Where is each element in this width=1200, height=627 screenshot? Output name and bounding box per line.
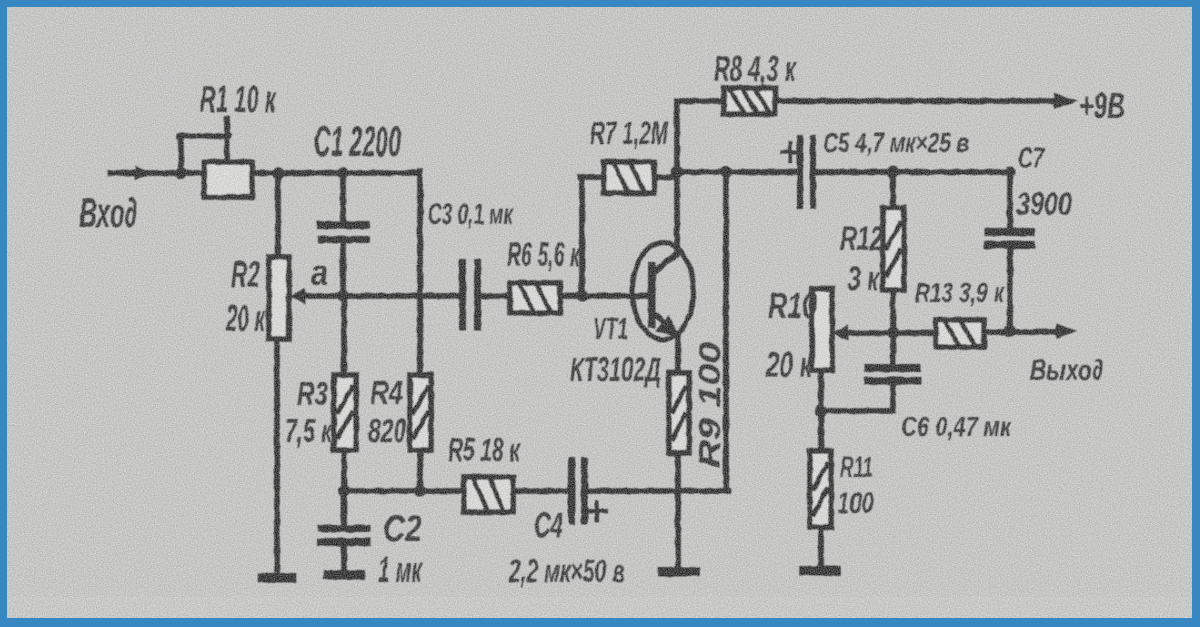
junction a-C1 xyxy=(337,290,349,302)
resistor R11 100 xyxy=(810,451,831,527)
wire R9 bottom lead xyxy=(675,453,681,567)
label Vyhod xyxy=(1030,354,1103,387)
ground R2 xyxy=(263,573,291,583)
wire C4 to feedback corner xyxy=(588,488,728,494)
junction R3-bottom xyxy=(338,485,350,497)
wire R5 to C4 xyxy=(513,488,570,494)
wire C5 to C7 corner xyxy=(816,169,1012,175)
wire R3 bottom lead xyxy=(341,450,347,491)
label C2 value xyxy=(378,549,423,590)
resistor R9 100 xyxy=(669,373,689,453)
wire main collector to C5 xyxy=(677,169,797,175)
junction R10-R11 xyxy=(815,405,827,417)
wire R2 top lead xyxy=(275,173,281,257)
wire R12 top lead xyxy=(890,172,896,208)
resistor R3 7.5k xyxy=(334,375,356,450)
wire C6 top lead xyxy=(890,333,896,368)
label R6 value xyxy=(507,236,581,274)
resistor R10 (potentiometer 20k) xyxy=(812,289,832,370)
ground R9 xyxy=(663,567,695,577)
junction C1 branch xyxy=(337,167,349,179)
label R11 value xyxy=(837,487,874,520)
label R12 xyxy=(840,220,883,258)
wire R6 to base xyxy=(560,293,651,299)
wire R3 top lead xyxy=(341,296,347,375)
label R4 xyxy=(370,374,403,411)
wire feedback vertical xyxy=(723,172,729,491)
label R12 value xyxy=(848,260,880,298)
resistor R5 18k xyxy=(464,477,513,512)
label C3 value xyxy=(428,198,514,231)
label R13 value xyxy=(915,277,1005,308)
capacitor C1 2200 xyxy=(321,225,366,240)
C4 plus sign xyxy=(588,502,606,520)
label R2 value xyxy=(225,298,266,339)
wire corner down to R4 xyxy=(417,171,423,375)
wire supply rail xyxy=(677,98,1056,104)
label +9V xyxy=(1079,85,1125,126)
wire R4 bottom lead xyxy=(417,450,423,491)
wire R11 bottom lead xyxy=(818,527,824,565)
resistor R13 3.9k xyxy=(936,320,984,347)
label R8 value xyxy=(714,48,797,89)
label C7 xyxy=(1018,142,1045,175)
junction feedback branch xyxy=(720,166,732,178)
label node a xyxy=(311,252,328,293)
label R4 value xyxy=(368,412,406,449)
wire C1 bottom lead xyxy=(340,243,346,296)
label C7 value xyxy=(1016,186,1072,222)
capacitor C3 0.1uF xyxy=(463,263,478,327)
label R11 xyxy=(840,451,873,484)
junction R4-bottom xyxy=(414,485,426,497)
wire R1 wiper bracket xyxy=(179,119,229,173)
capacitor C2 1uF xyxy=(321,529,367,543)
wire C3 to R6 xyxy=(481,293,512,299)
junction R12-wiper xyxy=(887,327,899,339)
junction C7-output xyxy=(1004,325,1016,337)
wire R10 bottom lead xyxy=(818,370,824,411)
junction R1 wiper-input xyxy=(175,167,187,179)
wire emitter to R9 xyxy=(675,335,681,373)
wire R2 bottom lead xyxy=(274,339,280,570)
resistor R8 4.3k xyxy=(724,88,775,114)
wire C1 top lead xyxy=(340,173,346,225)
capacitor C5 4.7uFx25V xyxy=(800,138,813,206)
capacitor C7 3900 xyxy=(988,232,1031,245)
wire wiper to R13 xyxy=(846,330,936,336)
R2 wiper arrow xyxy=(290,288,311,304)
label Vhod xyxy=(79,189,137,236)
label C4 value xyxy=(508,553,625,589)
ground C2 xyxy=(328,570,360,580)
label R9 value xyxy=(692,342,727,468)
label R2 xyxy=(231,254,260,295)
label C4 xyxy=(534,506,563,545)
node input terminal / wire xyxy=(110,170,204,176)
label R1 value xyxy=(200,79,277,121)
resistor R7 1.2M xyxy=(604,162,654,193)
label C5 value xyxy=(823,127,969,158)
wire bottom rail xyxy=(344,488,464,494)
transistor VT1 base bar xyxy=(648,262,656,328)
input arrow xyxy=(135,166,152,180)
label R10 value xyxy=(765,344,813,385)
transistor VT1 outline xyxy=(633,243,694,340)
transistor VT1 collector lead xyxy=(654,252,679,272)
wire R7 left lead xyxy=(580,177,604,296)
ground R11 xyxy=(804,566,836,576)
wire C7 bottom vertical xyxy=(1007,249,1013,332)
label VT1 type xyxy=(570,351,661,389)
capacitor C4 2.2uFx50V xyxy=(572,461,585,521)
wire C7 top vertical xyxy=(1007,170,1013,233)
C5 plus sign xyxy=(782,143,799,161)
label C6 value xyxy=(901,411,1012,442)
resistor R12 3k xyxy=(883,208,904,290)
wire C6 to R10 bottom xyxy=(820,408,893,414)
wire wiper node a xyxy=(298,293,461,299)
wire R7 right lead xyxy=(654,174,676,180)
wire R12 bottom lead xyxy=(890,290,896,333)
junction collector-main xyxy=(671,166,683,178)
resistor R1 (variable, 10k) xyxy=(204,162,252,197)
wire collector vertical xyxy=(674,101,680,254)
capacitor C6 0.47uF xyxy=(868,368,917,381)
output arrow xyxy=(1056,324,1077,339)
wire C2 bottom lead xyxy=(341,546,347,570)
resistor R6 5.6k xyxy=(510,283,560,313)
wire R1 right to corner xyxy=(252,170,420,176)
wire C2 top lead xyxy=(341,491,347,528)
label R5 value xyxy=(448,431,521,468)
junction R7 branch xyxy=(576,290,588,302)
label R10 xyxy=(768,285,817,326)
transistor VT1 emitter lead xyxy=(654,313,679,337)
supply arrow +9V xyxy=(1054,93,1078,109)
label R3 value xyxy=(285,412,333,449)
label C2 xyxy=(383,508,422,549)
resistor R2 (potentiometer 20k) xyxy=(269,257,289,339)
junction R2 branch xyxy=(272,167,284,179)
label R3 xyxy=(297,375,328,412)
junction R12 branch xyxy=(887,166,899,178)
resistor R4 820 xyxy=(410,375,431,450)
label R7 value xyxy=(590,115,669,151)
label C1 value xyxy=(314,118,401,166)
R10 wiper arrow xyxy=(833,325,848,341)
wire R11 top lead xyxy=(818,411,824,451)
label VT1 xyxy=(593,311,628,346)
wire C6 bottom lead xyxy=(890,385,896,411)
wire R13 to output xyxy=(984,329,1057,335)
